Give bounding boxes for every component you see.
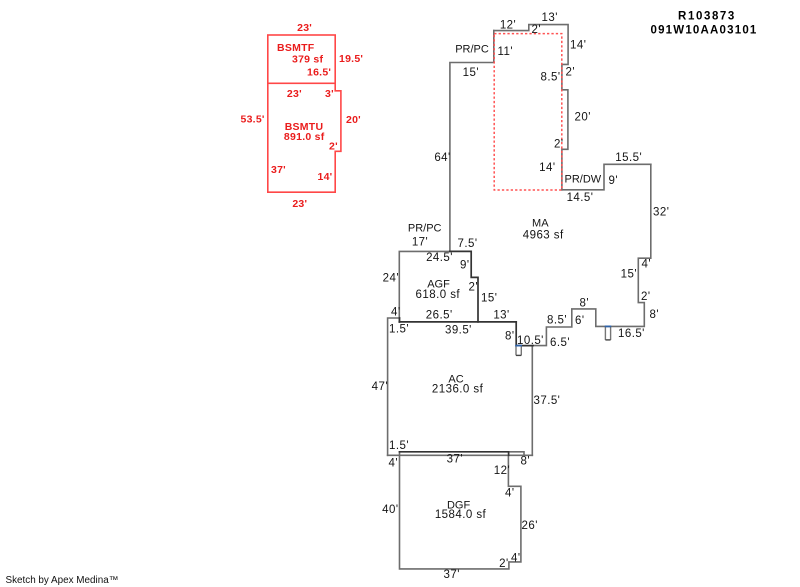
svg-text:20': 20' xyxy=(346,114,361,126)
svg-text:14.5': 14.5' xyxy=(567,192,594,204)
svg-text:20': 20' xyxy=(575,111,591,123)
PR/DW lower edge 14.5' 9' 15.5' 32' xyxy=(562,164,651,190)
svg-text:1.5': 1.5' xyxy=(389,323,409,335)
svg-text:24': 24' xyxy=(383,273,399,285)
svg-text:4': 4' xyxy=(511,553,521,565)
svg-text:12': 12' xyxy=(494,465,510,477)
AC 1.5' step xyxy=(399,318,401,322)
svg-text:19.5': 19.5' xyxy=(339,53,363,65)
svg-text:37.5': 37.5' xyxy=(534,395,561,407)
AC bottom edge xyxy=(388,454,533,456)
svg-text:BSMTF: BSMTF xyxy=(277,42,315,54)
svg-text:4': 4' xyxy=(389,458,399,470)
svg-text:3': 3' xyxy=(325,88,334,100)
svg-text:26.5': 26.5' xyxy=(426,309,453,321)
svg-text:37': 37' xyxy=(271,164,286,176)
svg-text:14': 14' xyxy=(318,171,333,183)
red labels xyxy=(241,22,364,210)
svg-text:9': 9' xyxy=(460,259,470,271)
svg-text:PR/PC: PR/PC xyxy=(408,222,442,234)
svg-text:32': 32' xyxy=(653,206,669,218)
black dimension labels xyxy=(372,12,670,581)
AGF/AC boundary 39.5' xyxy=(399,321,516,323)
svg-text:2': 2' xyxy=(566,67,576,79)
svg-text:16.5': 16.5' xyxy=(307,66,331,78)
svg-text:R103873: R103873 xyxy=(678,11,736,23)
svg-text:17': 17' xyxy=(412,237,428,249)
svg-text:Sketch by Apex Medina™: Sketch by Apex Medina™ xyxy=(6,575,119,586)
fireplace stub B blue top xyxy=(605,325,612,327)
svg-text:15': 15' xyxy=(481,293,497,305)
fireplace stub A blue top xyxy=(515,345,522,347)
AC left wall 47' and 4' step xyxy=(388,318,400,455)
svg-text:2136.0 sf: 2136.0 sf xyxy=(432,384,484,396)
red dotted overlay rectangle xyxy=(494,34,562,190)
svg-text:8': 8' xyxy=(650,309,660,321)
svg-text:10.5': 10.5' xyxy=(517,335,544,347)
MA top edge 12' 2' 13' 14' xyxy=(494,25,568,190)
svg-text:PR/DW: PR/DW xyxy=(565,173,602,185)
svg-text:11': 11' xyxy=(498,46,513,58)
svg-text:4': 4' xyxy=(642,258,652,270)
svg-text:2': 2' xyxy=(469,281,479,293)
svg-text:8.5': 8.5' xyxy=(541,71,561,83)
svg-text:4': 4' xyxy=(505,488,515,500)
svg-text:6.5': 6.5' xyxy=(550,337,570,349)
svg-text:13': 13' xyxy=(542,12,558,24)
fireplace stub B xyxy=(605,326,610,340)
svg-text:15.5': 15.5' xyxy=(615,152,642,164)
fireplace stub A xyxy=(516,346,521,356)
svg-text:37': 37' xyxy=(447,454,463,466)
svg-text:091W10AA03101: 091W10AA03101 xyxy=(650,25,757,37)
svg-text:23': 23' xyxy=(292,198,307,210)
svg-text:47': 47' xyxy=(372,381,388,393)
svg-text:9': 9' xyxy=(609,175,619,187)
svg-text:23': 23' xyxy=(287,88,302,100)
svg-text:2': 2' xyxy=(499,558,509,570)
DGF top edge 37' xyxy=(400,452,509,456)
svg-text:7.5': 7.5' xyxy=(458,238,478,250)
svg-text:2': 2' xyxy=(641,291,651,303)
svg-text:6': 6' xyxy=(575,315,585,327)
svg-text:23': 23' xyxy=(297,22,312,34)
svg-text:64': 64' xyxy=(434,152,450,164)
svg-text:379 sf: 379 sf xyxy=(292,53,324,65)
svg-text:618.0 sf: 618.0 sf xyxy=(416,289,461,301)
svg-text:40': 40' xyxy=(382,504,398,516)
svg-text:1584.0 sf: 1584.0 sf xyxy=(435,509,487,521)
svg-text:13': 13' xyxy=(493,309,509,321)
AGF left wall 24' and top 17' (porch edge) xyxy=(399,251,450,322)
MA right wall 32' 4' 15' 2' 8' xyxy=(533,164,651,345)
svg-text:1.5': 1.5' xyxy=(389,440,409,452)
AGF outline 24.5' 9' 2' 15' xyxy=(450,251,478,322)
BSMTU outline (red basement unfinished) xyxy=(268,83,341,192)
svg-text:4963 sf: 4963 sf xyxy=(523,230,564,242)
svg-text:53.5': 53.5' xyxy=(241,113,265,125)
DGF left wall 40' and bottom 37' xyxy=(400,452,521,569)
svg-text:PR/PC: PR/PC xyxy=(455,43,489,55)
svg-text:8': 8' xyxy=(521,456,531,468)
svg-text:15': 15' xyxy=(463,67,479,79)
svg-text:24.5': 24.5' xyxy=(426,252,453,264)
svg-text:2': 2' xyxy=(554,138,564,150)
svg-text:26': 26' xyxy=(522,520,538,532)
svg-text:8': 8' xyxy=(505,331,515,343)
BSMTF outline (red basement finished) xyxy=(268,35,341,192)
dark outline group xyxy=(399,251,533,455)
svg-text:MA: MA xyxy=(532,217,549,229)
svg-text:14': 14' xyxy=(539,162,555,174)
svg-text:891.0 sf: 891.0 sf xyxy=(284,131,325,143)
DGF top-right thin bar xyxy=(509,452,524,456)
svg-text:12': 12' xyxy=(500,20,516,32)
svg-text:14': 14' xyxy=(570,40,586,52)
svg-text:39.5': 39.5' xyxy=(445,325,472,337)
AC top-right step 8' 10.5' xyxy=(516,322,533,346)
svg-text:2': 2' xyxy=(329,141,338,153)
svg-text:4': 4' xyxy=(391,307,401,319)
svg-text:16.5': 16.5' xyxy=(618,328,645,340)
svg-text:8.5': 8.5' xyxy=(547,315,567,327)
svg-text:15': 15' xyxy=(621,269,637,281)
gray main outline group xyxy=(388,25,651,569)
AC right wall 37.5' xyxy=(531,346,533,456)
svg-text:2': 2' xyxy=(532,24,542,36)
svg-text:37': 37' xyxy=(444,569,460,581)
svg-text:8': 8' xyxy=(580,297,590,309)
PR/PC porch left wall 11' xyxy=(450,31,494,252)
